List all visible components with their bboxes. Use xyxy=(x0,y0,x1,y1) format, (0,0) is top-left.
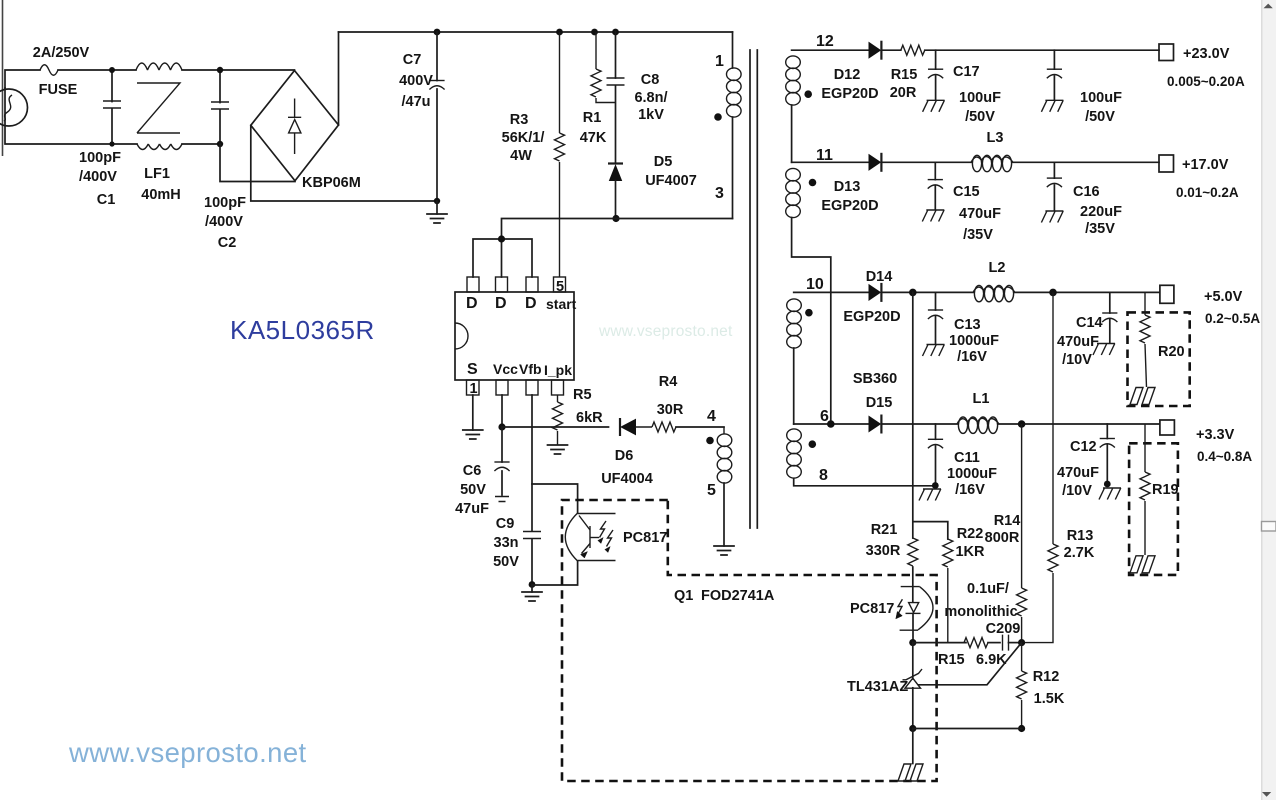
capacitor C209 xyxy=(1003,635,1009,651)
capacitor C11 xyxy=(935,424,937,486)
svg-text:/10V: /10V xyxy=(1062,483,1092,499)
IC pin Ipk box xyxy=(552,380,564,395)
inductor LF1 choke top winding xyxy=(136,63,182,70)
svg-text:S: S xyxy=(467,361,478,378)
svg-text:R22: R22 xyxy=(957,526,984,542)
svg-text:10: 10 xyxy=(806,276,824,293)
svg-text:6.8n/: 6.8n/ xyxy=(634,90,667,106)
svg-text:20R: 20R xyxy=(890,85,917,101)
wire C2 to bridge bottom xyxy=(220,144,295,182)
svg-text:R13: R13 xyxy=(1067,528,1094,544)
svg-text:0.005~0.20A: 0.005~0.20A xyxy=(1167,74,1245,89)
wire bridge+ to HV rail xyxy=(338,32,340,125)
svg-text:C6: C6 xyxy=(463,463,482,479)
ground 100uF/50V cap xyxy=(1041,100,1063,112)
svg-text:SB360: SB360 xyxy=(853,371,897,387)
ground R20 xyxy=(1130,388,1155,405)
wire bottom rail xyxy=(913,728,1022,730)
node C12 ground xyxy=(1104,481,1111,488)
node Vcc xyxy=(498,423,505,430)
svg-text:40mH: 40mH xyxy=(141,187,181,203)
svg-text:R14: R14 xyxy=(994,513,1021,529)
svg-text:220uF: 220uF xyxy=(1080,204,1122,220)
node C1 bottom xyxy=(109,141,114,146)
resistor R21 xyxy=(908,538,918,566)
svg-text:/10V: /10V xyxy=(1062,352,1092,368)
wire opto emitter to ground node xyxy=(532,561,578,585)
node C11 ground xyxy=(932,482,939,489)
svg-text:0.01~0.2A: 0.01~0.2A xyxy=(1176,185,1239,200)
wire Vfb pin down xyxy=(531,395,533,585)
wire top to bridge xyxy=(182,69,295,71)
resistor R13 xyxy=(1022,292,1053,642)
svg-text:C13: C13 xyxy=(954,317,981,333)
secondary winding 6-8 xyxy=(794,423,869,425)
dashed box Q1 FOD2741A xyxy=(562,500,937,781)
phase dot w10 xyxy=(805,309,813,317)
svg-text:C209: C209 xyxy=(986,621,1021,637)
wire Vcc pin down xyxy=(501,395,503,427)
node ref divider xyxy=(1018,639,1025,646)
svg-text:www.vseprosto.net: www.vseprosto.net xyxy=(598,323,733,340)
svg-text:50V: 50V xyxy=(493,554,519,570)
node w11 return xyxy=(827,420,835,428)
svg-text:C12: C12 xyxy=(1070,439,1097,455)
svg-text:470uF: 470uF xyxy=(959,206,1001,222)
wire D pins bus xyxy=(473,239,532,277)
svg-text:R1: R1 xyxy=(583,110,602,126)
AC source xyxy=(0,89,28,126)
scrollbar up arrow xyxy=(1264,4,1273,9)
diode D5 xyxy=(608,162,623,164)
inductor L1 xyxy=(957,417,999,433)
phase dot w11 xyxy=(809,179,817,187)
svg-text:50V: 50V xyxy=(460,482,486,498)
svg-text:470uF: 470uF xyxy=(1057,334,1099,350)
ground C16 xyxy=(1041,211,1063,223)
wire to bottom ground xyxy=(912,729,914,764)
scan edge artifact left xyxy=(2,0,4,156)
node C2 bottom xyxy=(217,141,223,147)
ground C17 xyxy=(923,100,945,112)
capacitor C12 xyxy=(1106,424,1108,484)
svg-text:www.vseprosto.net: www.vseprosto.net xyxy=(68,737,307,768)
node R3 top xyxy=(556,29,563,36)
svg-text:C17: C17 xyxy=(953,64,980,80)
svg-text:EGP20D: EGP20D xyxy=(821,86,878,102)
svg-text:/400V: /400V xyxy=(79,169,117,185)
svg-text:L3: L3 xyxy=(987,130,1004,146)
svg-text:start: start xyxy=(546,296,577,312)
ground C12 xyxy=(1099,488,1121,500)
svg-text:C1: C1 xyxy=(97,192,116,208)
svg-text:C16: C16 xyxy=(1073,184,1100,200)
secondary winding 11 xyxy=(792,161,869,163)
svg-text:1000uF: 1000uF xyxy=(949,333,999,349)
wire Vfb branch to opto collector xyxy=(532,484,578,513)
capacitor C13 xyxy=(935,292,937,344)
capacitor C7 xyxy=(436,32,438,201)
svg-text:Vcc: Vcc xyxy=(493,361,518,377)
wire Vcc to D6 xyxy=(502,426,609,428)
wire AC bottom xyxy=(5,88,220,144)
scrollbar thumb xyxy=(1262,522,1276,532)
output terminal +3.3V xyxy=(1160,420,1175,435)
svg-text:D6: D6 xyxy=(615,448,634,464)
svg-text:KBP06M: KBP06M xyxy=(302,175,361,191)
svg-text:D13: D13 xyxy=(834,179,861,195)
svg-text:+5.0V: +5.0V xyxy=(1204,289,1243,305)
svg-text:D14: D14 xyxy=(866,269,893,285)
capacitor C8 snubber xyxy=(615,32,617,163)
svg-text:FUSE: FUSE xyxy=(39,82,78,98)
svg-text:C14: C14 xyxy=(1076,315,1103,331)
diode D6 xyxy=(619,418,621,436)
phase dot w12 xyxy=(804,90,812,98)
svg-text:Q1: Q1 xyxy=(674,588,693,604)
svg-text:C7: C7 xyxy=(403,52,422,68)
node D14 out xyxy=(909,289,917,297)
scrollbar down arrow xyxy=(1262,792,1271,797)
svg-text:100uF: 100uF xyxy=(959,90,1001,106)
svg-text:100pF: 100pF xyxy=(204,195,246,211)
svg-text:0.4~0.8A: 0.4~0.8A xyxy=(1197,449,1252,464)
IC pin Vcc box xyxy=(496,380,508,395)
svg-text:4: 4 xyxy=(707,408,716,425)
svg-text:47K: 47K xyxy=(580,130,607,146)
transformer core xyxy=(750,50,757,528)
transformer primary winding 1-3 xyxy=(732,32,734,68)
bridge rectifier KBP06M xyxy=(251,71,339,181)
wire AC top xyxy=(5,70,136,88)
capacitor C6 xyxy=(501,427,503,495)
secondary winding 10 xyxy=(794,291,869,293)
svg-text:C8: C8 xyxy=(641,72,660,88)
ground R5 xyxy=(548,445,568,454)
svg-text:D5: D5 xyxy=(654,154,673,170)
svg-text:I_pk: I_pk xyxy=(544,362,572,378)
svg-text:12: 12 xyxy=(816,33,834,50)
resistor R1 snubber xyxy=(596,32,616,103)
svg-text:/47u: /47u xyxy=(401,94,430,110)
svg-text:C9: C9 xyxy=(496,516,515,532)
resistor R22 xyxy=(943,539,953,567)
node C1 top xyxy=(109,67,115,73)
capacitor C1 xyxy=(111,70,113,144)
output terminal +23V xyxy=(1159,44,1174,61)
output terminal +5V xyxy=(1160,285,1174,303)
svg-text:/35V: /35V xyxy=(963,227,993,243)
resistor R15 20R xyxy=(901,45,925,55)
svg-text:330R: 330R xyxy=(866,543,901,559)
diode D13 xyxy=(869,153,881,172)
svg-text:UF4007: UF4007 xyxy=(645,173,697,189)
IC U1 KA5L0365R body xyxy=(455,292,574,380)
svg-text:R20: R20 xyxy=(1158,344,1185,360)
svg-text:D15: D15 xyxy=(866,395,893,411)
capacitor C16 xyxy=(1053,162,1055,210)
capacitor C17 xyxy=(935,50,937,100)
svg-text:8: 8 xyxy=(819,467,828,484)
svg-text:R5: R5 xyxy=(573,387,592,403)
IC pin 5 start box xyxy=(554,277,566,292)
svg-text:11: 11 xyxy=(816,147,833,164)
node D bus xyxy=(498,235,505,242)
svg-text:100pF: 100pF xyxy=(79,150,121,166)
svg-text:monolithic: monolithic xyxy=(944,604,1017,620)
node LED cathode xyxy=(909,639,916,646)
svg-text:R3: R3 xyxy=(510,112,529,128)
optocoupler PC817 LED xyxy=(896,567,933,643)
svg-text:0.1uF/: 0.1uF/ xyxy=(967,581,1009,597)
wire HV top rail xyxy=(339,31,733,33)
svg-text:1: 1 xyxy=(715,53,724,70)
node TL431 anode xyxy=(909,725,916,732)
svg-text:/35V: /35V xyxy=(1085,221,1115,237)
resistor R20 xyxy=(1145,292,1147,387)
svg-text:PC817: PC817 xyxy=(623,530,667,546)
svg-text:4W: 4W xyxy=(510,148,532,164)
capacitor C15 xyxy=(934,162,936,209)
capacitor C2 xyxy=(219,70,221,144)
dashed box R20 xyxy=(1128,312,1190,406)
inductor LF1 bottom winding xyxy=(137,144,182,150)
svg-text:/16V: /16V xyxy=(955,482,985,498)
wire S pin to ground xyxy=(472,395,474,430)
svg-text:R4: R4 xyxy=(659,374,678,390)
scrollbar track xyxy=(1261,0,1276,800)
svg-text:/16V: /16V xyxy=(957,349,987,365)
wire feedback node xyxy=(913,642,966,644)
IC pin D1 box xyxy=(467,277,479,292)
svg-text:33n: 33n xyxy=(494,535,519,551)
svg-text:+23.0V: +23.0V xyxy=(1183,46,1230,62)
svg-text:1KR: 1KR xyxy=(955,544,985,560)
svg-text:3: 3 xyxy=(715,185,724,202)
diode D14 xyxy=(869,283,881,302)
IC pin D3 box xyxy=(526,277,538,292)
optocoupler PC817 phototransistor xyxy=(565,513,615,561)
resistor R4 xyxy=(652,422,676,432)
node C7 bottom xyxy=(434,198,440,204)
IC pin Vfb box xyxy=(526,380,538,395)
svg-text:D: D xyxy=(525,295,537,312)
capacitor C14 xyxy=(1109,292,1111,343)
svg-text:5: 5 xyxy=(707,482,716,499)
phase dot primary xyxy=(714,113,722,121)
svg-text:R21: R21 xyxy=(871,522,898,538)
wire +5V raw to R21 R22 xyxy=(913,292,948,539)
svg-text:TL431AZ: TL431AZ xyxy=(847,679,908,695)
svg-text:/400V: /400V xyxy=(205,214,243,230)
ground R19 xyxy=(1130,556,1155,573)
ground S pin xyxy=(463,430,483,439)
LF1 core Z symbol xyxy=(137,83,180,133)
svg-text:/50V: /50V xyxy=(965,109,995,125)
svg-text:D12: D12 xyxy=(834,67,861,83)
diode D12 xyxy=(869,41,881,60)
diode D15 xyxy=(869,415,881,434)
svg-text:+17.0V: +17.0V xyxy=(1182,157,1229,173)
fuse F1 xyxy=(40,65,58,76)
node C7 top xyxy=(434,29,441,36)
svg-text:800R: 800R xyxy=(985,530,1020,546)
svg-text:R19: R19 xyxy=(1152,482,1179,498)
svg-text:C11: C11 xyxy=(954,450,980,466)
svg-text:L1: L1 xyxy=(973,391,990,407)
svg-text:+3.3V: +3.3V xyxy=(1196,427,1235,443)
svg-text:KA5L0365R: KA5L0365R xyxy=(230,315,375,345)
wire bridge- to ground rail xyxy=(251,125,437,201)
output terminal +17V xyxy=(1159,155,1174,172)
node R12 bottom xyxy=(1018,725,1025,732)
svg-text:C2: C2 xyxy=(218,235,237,251)
svg-text:0.2~0.5A: 0.2~0.5A xyxy=(1205,311,1260,326)
resistor R5 xyxy=(557,395,559,445)
TL431 U2 xyxy=(903,643,923,729)
node C2 top xyxy=(217,67,223,73)
svg-text:5: 5 xyxy=(556,279,564,295)
phase dot aux xyxy=(706,437,714,445)
svg-text:400V: 400V xyxy=(399,73,433,89)
svg-text:LF1: LF1 xyxy=(144,166,170,182)
svg-text:/50V: /50V xyxy=(1085,109,1115,125)
IC pin S box xyxy=(467,380,480,395)
svg-text:56K/1/: 56K/1/ xyxy=(502,130,545,146)
svg-text:2A/250V: 2A/250V xyxy=(33,45,90,61)
secondary winding 12 xyxy=(792,49,869,51)
resistor R3 startup xyxy=(559,32,561,277)
svg-text:FOD2741A: FOD2741A xyxy=(701,588,775,604)
svg-text:D: D xyxy=(495,295,507,312)
node L2 out xyxy=(1049,289,1057,297)
svg-text:D: D xyxy=(466,295,478,312)
ground C15 xyxy=(922,210,944,222)
svg-text:R15: R15 xyxy=(891,67,918,83)
transformer aux winding 4-5 xyxy=(723,427,725,434)
ground C14 xyxy=(1093,344,1115,356)
node R1 top xyxy=(591,29,598,36)
capacitor 100uF/50V (second) xyxy=(1053,50,1055,100)
svg-text:Vfb: Vfb xyxy=(519,361,542,377)
svg-text:2.7K: 2.7K xyxy=(1064,545,1095,561)
wire TL431 ref xyxy=(919,643,1022,685)
node D5 anode xyxy=(612,215,619,222)
bridge inner diode xyxy=(288,99,301,155)
svg-text:47uF: 47uF xyxy=(455,501,489,517)
ground aux winding xyxy=(714,546,734,555)
svg-text:L2: L2 xyxy=(989,260,1006,276)
resistor R14 xyxy=(1021,424,1023,643)
svg-text:100uF: 100uF xyxy=(1080,90,1122,106)
inductor L2 xyxy=(973,285,1015,301)
svg-text:30R: 30R xyxy=(657,402,684,418)
resistor R12 xyxy=(1021,643,1023,729)
svg-text:6kR: 6kR xyxy=(576,410,603,426)
node L1 out xyxy=(1018,420,1026,428)
capacitor C9 xyxy=(523,532,541,539)
svg-text:R15: R15 xyxy=(938,652,965,668)
svg-text:EGP20D: EGP20D xyxy=(843,309,900,325)
svg-text:R12: R12 xyxy=(1033,669,1060,685)
ground C11 xyxy=(919,489,941,501)
wire drain rail xyxy=(502,219,733,240)
phase dot w8 xyxy=(809,440,817,448)
ground feedback xyxy=(898,764,923,781)
svg-text:1000uF: 1000uF xyxy=(947,466,997,482)
dashed box R19 xyxy=(1129,443,1178,575)
svg-text:470uF: 470uF xyxy=(1057,465,1099,481)
svg-text:PC817: PC817 xyxy=(850,601,894,617)
resistor R19 xyxy=(1144,424,1146,555)
node C8 top xyxy=(612,29,619,36)
resistor R15 6.9K xyxy=(964,638,988,648)
node C9 ground xyxy=(529,581,536,588)
ground C13 xyxy=(923,345,945,357)
svg-text:C15: C15 xyxy=(953,184,980,200)
svg-text:1.5K: 1.5K xyxy=(1034,691,1065,707)
ground C9 xyxy=(531,585,533,593)
IC pin D2 box xyxy=(496,277,508,292)
inductor L3 xyxy=(971,155,1013,171)
ground C7 xyxy=(436,201,438,214)
svg-text:UF4004: UF4004 xyxy=(601,471,653,487)
svg-text:EGP20D: EGP20D xyxy=(821,198,878,214)
ground C6 xyxy=(495,497,509,502)
svg-text:1kV: 1kV xyxy=(638,107,664,123)
